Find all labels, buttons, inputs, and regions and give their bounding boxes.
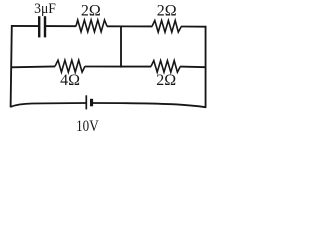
wire: top rail, R1 to R2 through node junction <box>107 25 153 27</box>
wire: middle vertical branch at node (top rail to middle rail) <box>120 26 122 68</box>
wire: top rail, capacitor to R1 <box>46 25 76 27</box>
wire: bottom rail, left segment (bowed) to battery <box>10 103 85 107</box>
wire: middle rail, R4 to right vertical <box>180 66 206 69</box>
wire: left vertical (top-left corner to bottom-left corner) <box>11 25 12 107</box>
wire: middle rail, left segment to R3 <box>11 65 55 68</box>
resistor R1 2Ω zigzag (top left) <box>76 20 107 32</box>
resistor R2 2Ω zigzag (top right) <box>152 21 181 33</box>
battery B1 long plate (positive) <box>85 95 87 109</box>
svg-text:10V: 10V <box>76 118 99 135</box>
wire: bottom rail, battery to bottom-right corner (bowed) <box>92 103 206 107</box>
capacitor C1 3µF plates <box>39 16 45 37</box>
wire: top rail, R2 to top-right corner <box>181 26 206 28</box>
svg-text:2Ω: 2Ω <box>157 3 177 20</box>
wire: top rail, left segment to capacitor <box>11 25 39 27</box>
svg-text:2Ω: 2Ω <box>81 3 101 20</box>
svg-text:2Ω: 2Ω <box>156 72 176 89</box>
svg-text:4Ω: 4Ω <box>60 72 80 89</box>
svg-text:3μF: 3μF <box>34 1 56 17</box>
resistor R3 4Ω zigzag (middle left) <box>55 60 85 72</box>
wire: right vertical (top-right corner to bottom-right corner) <box>205 26 207 108</box>
resistor R4 2Ω zigzag (middle right) <box>151 61 180 73</box>
battery B1 short plate (negative) <box>90 99 93 107</box>
wire: middle rail, R3 to R4 <box>85 66 151 68</box>
